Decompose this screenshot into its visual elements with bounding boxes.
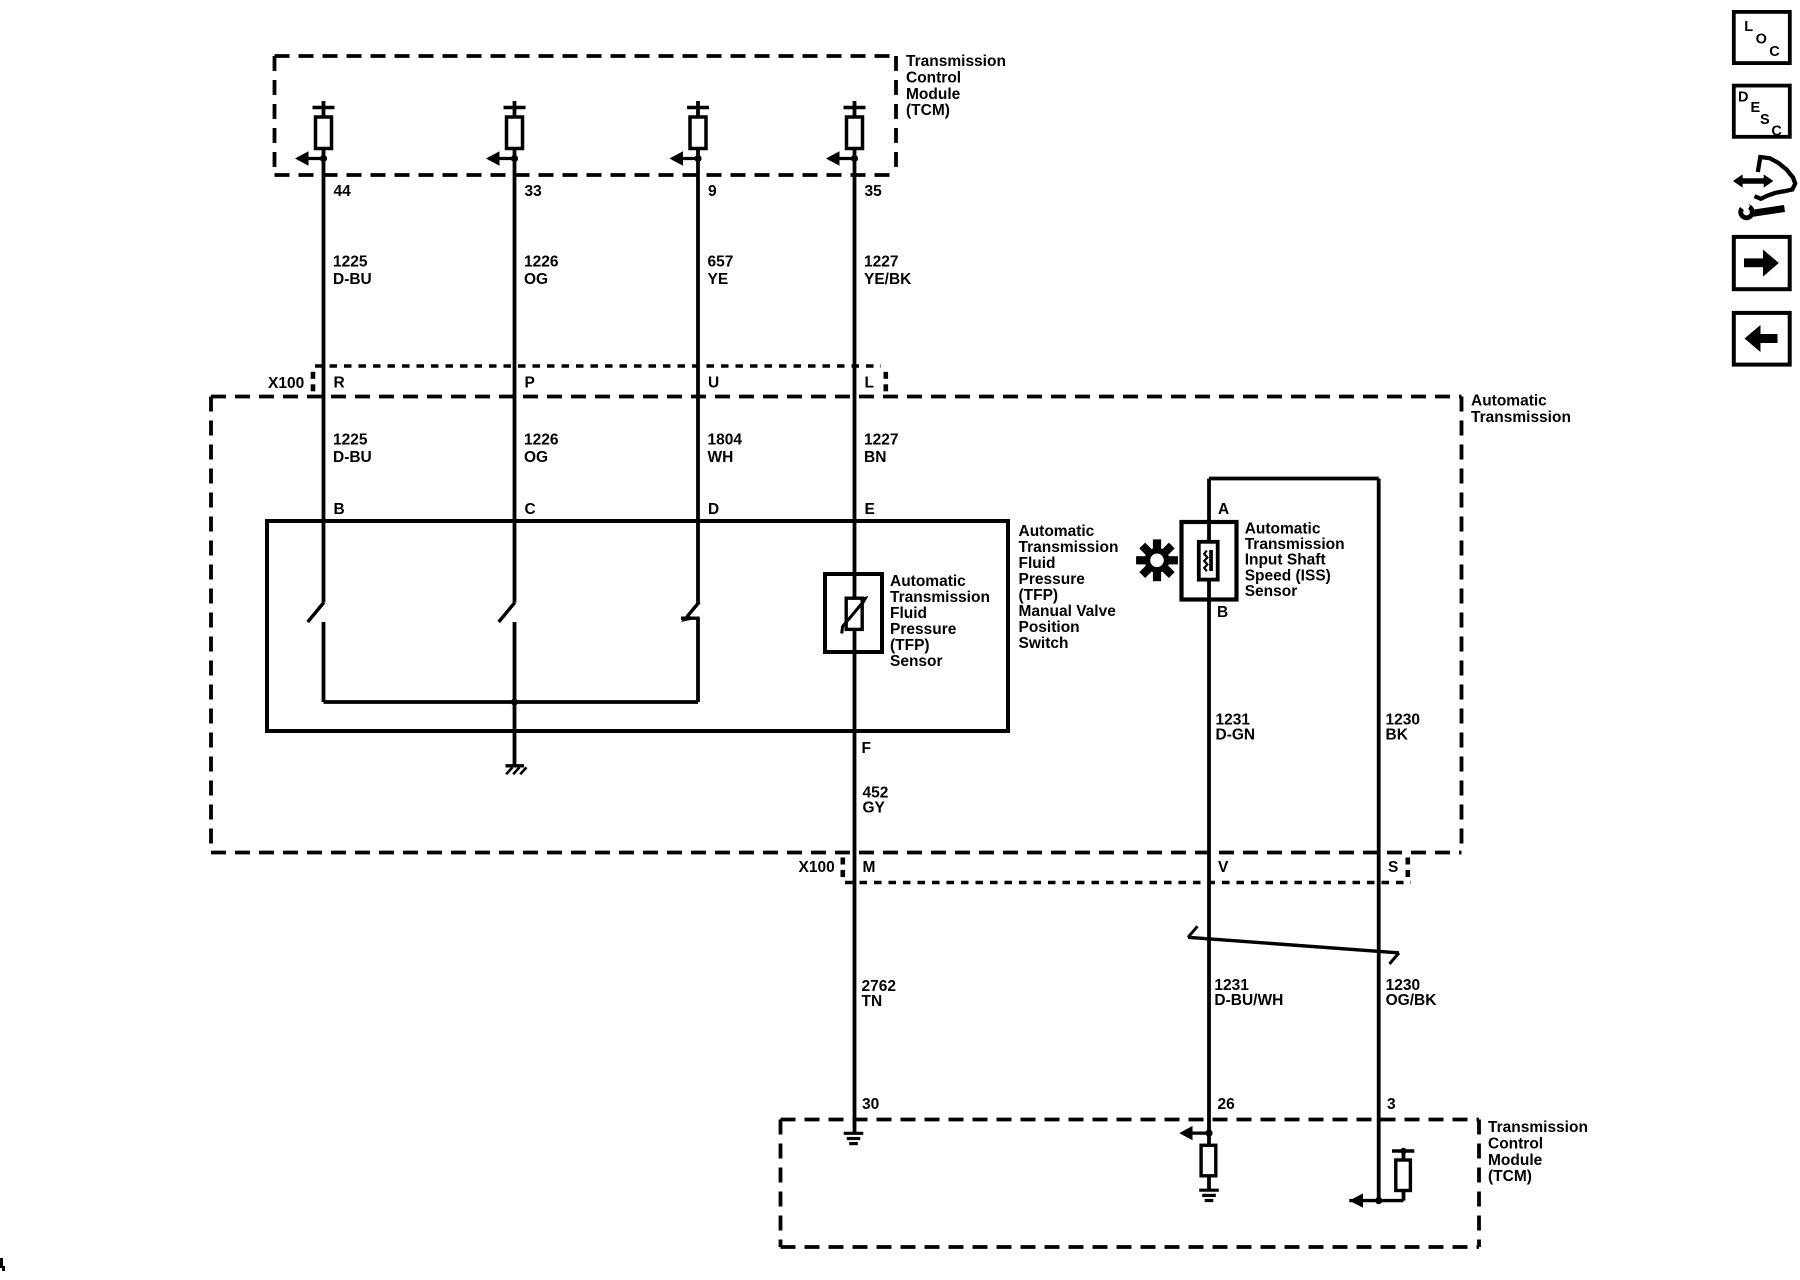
svg-text:(TCM): (TCM) [1488, 1168, 1532, 1185]
svg-text:Manual Valve: Manual Valve [1019, 603, 1117, 620]
svg-text:M: M [863, 859, 876, 876]
svg-text:Sensor: Sensor [1245, 583, 1298, 600]
svg-text:A: A [1218, 501, 1229, 518]
svg-text:Module: Module [906, 86, 961, 103]
svg-text:L: L [1744, 19, 1753, 35]
svg-text:D-BU/WH: D-BU/WH [1214, 992, 1283, 1009]
svg-text:U: U [708, 375, 719, 392]
svg-text:1226: 1226 [524, 254, 559, 271]
svg-text:D-GN: D-GN [1216, 727, 1256, 744]
svg-text:C: C [1771, 124, 1782, 140]
svg-text:Transmission: Transmission [1471, 409, 1571, 426]
svg-text:E: E [865, 501, 875, 518]
svg-text:R: R [334, 375, 345, 392]
svg-text:1225: 1225 [333, 432, 368, 449]
svg-text:YE: YE [708, 271, 729, 288]
svg-text:Transmission: Transmission [1019, 539, 1119, 556]
svg-text:TN: TN [862, 993, 883, 1010]
svg-text:1225: 1225 [333, 254, 368, 271]
svg-text:Transmission: Transmission [1488, 1119, 1588, 1136]
svg-text:V: V [1218, 859, 1229, 876]
svg-text:OG: OG [524, 271, 548, 288]
svg-text:F: F [862, 740, 871, 757]
svg-text:1226: 1226 [524, 432, 559, 449]
svg-text:1227: 1227 [864, 254, 898, 271]
svg-text:Transmission: Transmission [890, 589, 990, 606]
svg-text:Input Shaft: Input Shaft [1245, 552, 1326, 569]
svg-text:3: 3 [1387, 1096, 1396, 1113]
svg-text:Transmission: Transmission [1245, 536, 1345, 553]
svg-text:Fluid: Fluid [890, 605, 927, 622]
svg-text:BN: BN [864, 449, 886, 466]
svg-text:35: 35 [865, 183, 883, 200]
svg-text:E: E [1751, 100, 1761, 116]
svg-text:657: 657 [708, 254, 734, 271]
svg-text:1227: 1227 [864, 432, 898, 449]
svg-text:(TFP): (TFP) [890, 637, 930, 654]
svg-text:D-BU: D-BU [333, 271, 372, 288]
svg-text:Module: Module [1488, 1152, 1543, 1169]
svg-text:D: D [1738, 90, 1748, 106]
svg-text:S: S [1760, 112, 1770, 128]
svg-text:X100: X100 [799, 859, 835, 876]
svg-text:(TFP): (TFP) [1019, 587, 1059, 604]
svg-text:C: C [525, 501, 536, 518]
svg-text:Transmission: Transmission [906, 53, 1006, 70]
svg-text:1804: 1804 [708, 432, 743, 449]
svg-text:P: P [525, 375, 535, 392]
svg-text:Automatic: Automatic [1471, 393, 1547, 410]
svg-text:BK: BK [1386, 727, 1409, 744]
svg-text:O: O [1756, 31, 1767, 47]
svg-text:Pressure: Pressure [1019, 571, 1086, 588]
svg-text:Position: Position [1019, 619, 1080, 636]
svg-text:L: L [865, 375, 874, 392]
svg-text:Automatic: Automatic [1019, 523, 1095, 540]
svg-text:YE/BK: YE/BK [864, 271, 912, 288]
svg-text:(TCM): (TCM) [906, 102, 950, 119]
svg-text:C: C [1769, 44, 1780, 60]
svg-text:WH: WH [708, 449, 734, 466]
svg-text:30: 30 [862, 1096, 879, 1113]
svg-text:33: 33 [525, 183, 543, 200]
svg-text:OG/BK: OG/BK [1386, 992, 1438, 1009]
svg-text:44: 44 [334, 183, 352, 200]
svg-text:Switch: Switch [1019, 635, 1069, 652]
svg-text:Pressure: Pressure [890, 621, 957, 638]
svg-text:Sensor: Sensor [890, 653, 943, 670]
svg-text:Speed (ISS): Speed (ISS) [1245, 567, 1331, 584]
svg-text:26: 26 [1218, 1096, 1236, 1113]
svg-text:GY: GY [863, 800, 886, 817]
svg-text:X100: X100 [268, 375, 304, 392]
svg-text:Control: Control [906, 70, 961, 87]
svg-text:Fluid: Fluid [1019, 555, 1056, 572]
svg-text:B: B [334, 501, 345, 518]
svg-text:Automatic: Automatic [890, 573, 966, 590]
svg-text:D: D [708, 501, 719, 518]
svg-text:Control: Control [1488, 1136, 1543, 1153]
svg-text:9: 9 [708, 183, 717, 200]
svg-text:B: B [1217, 604, 1228, 621]
svg-text:Automatic: Automatic [1245, 521, 1321, 538]
svg-text:S: S [1388, 859, 1398, 876]
svg-text:OG: OG [524, 449, 548, 466]
svg-text:D-BU: D-BU [333, 449, 372, 466]
